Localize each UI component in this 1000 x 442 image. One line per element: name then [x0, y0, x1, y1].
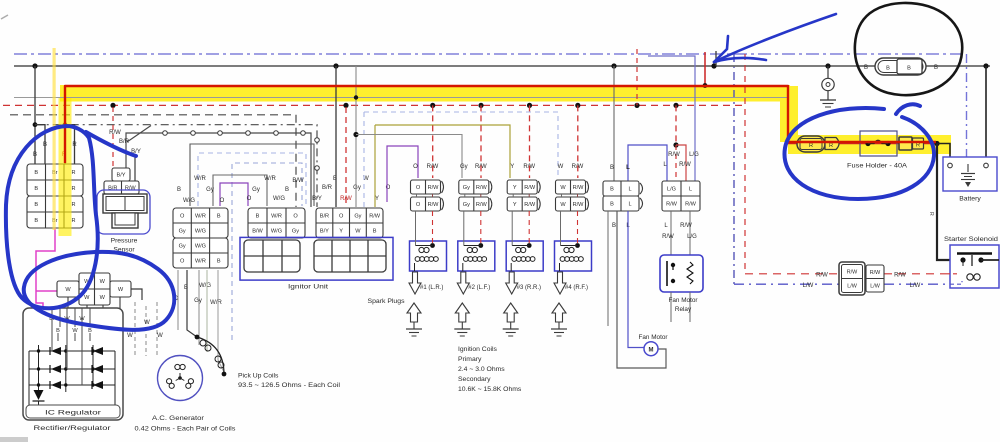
connector: ignitor unit 8-pin [316, 208, 383, 238]
svg-text:W/G: W/G [273, 196, 285, 202]
label box: IC Regulator [26, 405, 120, 418]
svg-text:#2 (L.F.): #2 (L.F.) [468, 285, 490, 291]
wire: fan motor loop [608, 211, 666, 368]
svg-text:W: W [558, 164, 564, 170]
annotation: black circle around main fuse [855, 3, 962, 95]
svg-text:Gy: Gy [179, 229, 186, 235]
svg-text:#3 (R.R.): #3 (R.R.) [517, 285, 541, 291]
svg-text:B/Y: B/Y [312, 196, 322, 202]
wire: black stub at broken point [715, 51, 717, 66]
svg-text:B: B [285, 187, 289, 193]
relay: fan motor relay [660, 255, 703, 322]
svg-text:Battery: Battery [959, 196, 981, 203]
svg-text:R/W: R/W [894, 273, 906, 279]
svg-text:R/W: R/W [685, 202, 697, 208]
svg-text:O: O [416, 202, 421, 208]
wire: L lead bracket to fan connector [628, 56, 695, 181]
svg-text:W/R: W/R [195, 259, 206, 265]
svg-text:R/W: R/W [475, 164, 487, 170]
connector: ignition coil 1 plug [411, 164, 444, 211]
svg-text:Gy: Gy [463, 185, 470, 191]
svg-text:R/W: R/W [573, 185, 585, 191]
component: pressure sensor body [97, 190, 150, 234]
wire: R wires into regulator connector [62, 86, 78, 165]
svg-text:B/W: B/W [252, 229, 263, 235]
svg-text:W: W [100, 295, 106, 301]
svg-text:B/Y: B/Y [116, 173, 125, 179]
wire: main ignition bus (blue dash-dot) [14, 54, 967, 284]
label: ignitor right connector wire labels [312, 176, 391, 202]
wire: heavy lead to solenoid [928, 144, 961, 261]
motor: fan motor M [644, 342, 658, 356]
wire: coil 1 HT lead arrow [409, 272, 443, 294]
component: A.C. generator [158, 356, 203, 401]
wire: L/W run to solenoid (blue dashed) [734, 281, 962, 289]
svg-text:R/W: R/W [662, 234, 674, 240]
svg-text:R/W: R/W [476, 185, 488, 191]
label: pickup connector wire labels [177, 176, 225, 204]
wire: main ground bus (solid) [14, 65, 990, 67]
annotation: yellow marker verticals over connector [53, 48, 72, 236]
svg-text:Starter Solenoid: Starter Solenoid [944, 236, 998, 243]
wire: black dash-dot bus y125 with corner to B/R [35, 125, 320, 207]
svg-text:W: W [65, 287, 71, 293]
svg-text:R/W: R/W [476, 202, 488, 208]
svg-text:L: L [628, 187, 631, 193]
wire: W net (light blue dashed) ignitor to coil4 [364, 112, 558, 178]
wire: R/W dashed stub above bus at x637 [636, 49, 638, 105]
connector: fuse holder pill R 2 [825, 138, 839, 150]
svg-text:W/R: W/R [271, 214, 282, 220]
svg-text:B: B [373, 229, 377, 235]
svg-text:B: B [33, 152, 37, 158]
svg-text:W: W [355, 229, 361, 235]
svg-text:R/W: R/W [847, 270, 858, 276]
svg-text:R/W: R/W [428, 185, 440, 191]
connector: pressure sensor pins [104, 168, 139, 194]
connector: ignition coil 4 plug [556, 164, 589, 211]
svg-text:Fan Motor: Fan Motor [638, 334, 668, 341]
svg-text:W/G: W/G [271, 229, 282, 235]
svg-text:Gy: Gy [292, 229, 299, 235]
svg-text:Gy: Gy [354, 214, 361, 220]
spark plug 2 [454, 303, 470, 336]
svg-text:93.5 ~ 126.5 Ohms - Each Coil: 93.5 ~ 126.5 Ohms - Each Coil [238, 382, 341, 389]
svg-text:Gy: Gy [463, 202, 470, 208]
svg-text:B/R: B/R [119, 139, 130, 145]
wire: Y net (olive) ignitor to coil3 [375, 125, 510, 178]
svg-text:Ignition Coils: Ignition Coils [458, 346, 498, 353]
svg-text:0.42 Ohms - Each Pair of Coils: 0.42 Ohms - Each Pair of Coils [135, 426, 237, 433]
svg-text:B: B [34, 202, 38, 208]
node: junction dots on R/W red bus [110, 103, 678, 108]
svg-text:B: B [610, 165, 614, 171]
fuse: 40A fuse element [860, 131, 897, 156]
svg-text:A.C. Generator: A.C. Generator [152, 415, 205, 422]
svg-text:O: O [220, 198, 225, 204]
svg-text:R/W: R/W [666, 202, 678, 208]
svg-text:B: B [34, 218, 38, 224]
svg-text:R: R [71, 170, 75, 176]
svg-text:Gy: Gy [460, 164, 468, 170]
svg-text:W/G: W/G [183, 198, 195, 204]
svg-text:W: W [100, 279, 106, 285]
svg-text:O: O [180, 259, 185, 265]
wire: coil 2 HT lead arrow [457, 272, 490, 294]
connector: ignition coil 2 plug [459, 164, 492, 211]
diode: zener to ground [33, 390, 45, 406]
svg-text:L/G: L/G [687, 234, 697, 240]
svg-text:W: W [127, 333, 133, 339]
battery [943, 157, 997, 191]
component: diode bridge [29, 322, 115, 406]
wire: Gy net to coil2 [356, 135, 462, 179]
component: pick up coils arc [195, 335, 227, 377]
svg-text:W/R: W/R [195, 214, 206, 220]
svg-text:Y: Y [510, 164, 514, 170]
svg-text:R/W: R/W [668, 152, 680, 158]
wire: leads from pickup connector down [174, 270, 224, 372]
svg-text:R/W: R/W [680, 223, 692, 229]
svg-text:Secondary: Secondary [458, 376, 491, 383]
wire: O net (purple) ignitor to coil1 [387, 146, 418, 202]
svg-text:W/G: W/G [199, 283, 211, 289]
svg-text:W: W [560, 185, 566, 191]
svg-text:Y: Y [513, 185, 517, 191]
wire: coil 4 HT lead arrow [554, 272, 588, 294]
svg-text:2.4 ~ 3.0 Ohms: 2.4 ~ 3.0 Ohms [458, 366, 505, 373]
connector: fan relay 4-pin [662, 181, 700, 211]
wire: thin gray line under highlighter [14, 97, 788, 99]
connector: pickup coils 12-pin stack [173, 208, 228, 268]
svg-text:W: W [79, 316, 85, 322]
connector: fan motor 4-pin [603, 181, 643, 211]
svg-text:L: L [626, 165, 630, 171]
svg-text:Pressure: Pressure [111, 238, 138, 245]
svg-text:R/W: R/W [870, 270, 881, 276]
svg-text:W/R: W/R [194, 176, 206, 182]
node: junction dots on ground bus [32, 63, 988, 68]
spark plug 3 [503, 303, 519, 336]
svg-text:Y: Y [339, 229, 343, 235]
svg-text:B: B [217, 259, 221, 265]
annotation: big blue loop around regulator connector [6, 126, 136, 308]
svg-text:R: R [72, 142, 77, 148]
svg-text:R/W: R/W [369, 214, 381, 220]
svg-text:R/W: R/W [573, 202, 585, 208]
ignition coil 2 [458, 211, 495, 271]
svg-text:10.6K ~ 15.8K Ohms: 10.6K ~ 15.8K Ohms [458, 386, 522, 393]
svg-text:R/W: R/W [816, 273, 828, 279]
connector: ignitor unit 6-pin [248, 208, 305, 238]
svg-text:Spark Plugs: Spark Plugs [368, 298, 406, 305]
connector: ignition coil 3 plug [507, 164, 540, 211]
svg-text:M: M [649, 347, 654, 353]
wire: B wire into regulator connector [33, 66, 47, 164]
component: IC regulator / rectifier box [23, 308, 123, 420]
annotation: blue loop around W block [24, 252, 175, 330]
svg-text:B/R: B/R [320, 214, 329, 220]
wire: W leads from block into regulator [68, 297, 120, 309]
connector: rectifier/regulator 6-pin pair (B Br R) [27, 164, 83, 228]
wire: B/Y net with inline connectors (circles wire) [126, 126, 311, 208]
wire: red stub at broken point [704, 52, 706, 86]
svg-text:R: R [928, 212, 934, 216]
spark plug 4 [551, 303, 567, 336]
svg-text:W: W [84, 295, 90, 301]
wire: black dashed bus y115 with corner to B/W [10, 115, 296, 207]
svg-text:B: B [610, 202, 614, 208]
svg-text:W: W [560, 202, 566, 208]
annotation: red marker over R wire [65, 86, 936, 163]
annotation: blue arrow pointing at junction [714, 14, 836, 62]
ignition coil 3 [506, 211, 543, 271]
wire: R/W drops to coils (red dashed) [433, 105, 578, 178]
ignition coil 1 [410, 211, 447, 271]
label: ignition coils resistance [458, 346, 522, 393]
svg-text:R/W: R/W [428, 202, 440, 208]
svg-text:W: W [157, 333, 163, 339]
svg-text:R: R [71, 202, 75, 208]
connector: stator W block [57, 273, 142, 305]
svg-text:B/Y: B/Y [320, 229, 329, 235]
svg-text:R/W: R/W [524, 185, 536, 191]
svg-text:B: B [907, 66, 911, 72]
svg-text:Gy: Gy [206, 187, 214, 193]
wire: battery feeds [934, 66, 986, 162]
svg-text:R: R [809, 143, 813, 149]
wire: leads to pressure sensor [109, 107, 141, 181]
wire: B lead to fan connector [613, 66, 615, 181]
connector: main fuse B-B pill [864, 58, 938, 75]
svg-text:R/W: R/W [427, 164, 439, 170]
svg-text:L/G: L/G [689, 152, 699, 158]
label: Pressure Sensor [111, 238, 138, 254]
svg-text:O: O [180, 214, 185, 220]
wire: dashed W leads to generator [127, 302, 163, 356]
svg-text:L: L [689, 187, 692, 193]
svg-text:B/W: B/W [292, 178, 304, 184]
spark plug 1 [406, 303, 422, 336]
connector: fuse holder square [899, 137, 924, 150]
svg-text:Primary: Primary [458, 356, 482, 363]
svg-text:R: R [71, 186, 75, 192]
svg-text:O: O [416, 185, 421, 191]
wire: printed R wire through fuse holder [788, 143, 937, 145]
solenoid: starter solenoid [950, 245, 999, 288]
svg-text:L/W: L/W [910, 283, 921, 289]
connector: fuse holder pill R [797, 136, 825, 152]
svg-text:Gy: Gy [252, 187, 260, 193]
svg-text:Fan Motor: Fan Motor [668, 297, 698, 304]
svg-text:B: B [43, 142, 47, 148]
svg-text:R/W: R/W [109, 130, 121, 136]
label: fan connector labels [610, 165, 630, 229]
label: ignitor left connector wire labels [247, 176, 304, 202]
svg-text:R: R [71, 218, 75, 224]
svg-text:W/R: W/R [264, 176, 276, 182]
decorative smudges [0, 15, 28, 442]
label: Fan Motor Relay [668, 297, 698, 313]
wire: coil 3 HT lead arrow [506, 272, 541, 294]
svg-text:B: B [34, 170, 38, 176]
svg-text:W/G: W/G [195, 244, 206, 250]
svg-text:W: W [144, 320, 150, 326]
svg-text:O: O [247, 196, 252, 202]
wire: R/W main (red dashed) [3, 104, 746, 106]
wire: leads into ignitor right connector [336, 66, 375, 207]
wire: magenta Br wire to W-block [36, 228, 57, 308]
svg-text:Gy: Gy [353, 185, 361, 191]
svg-text:W: W [118, 287, 124, 293]
svg-text:O: O [413, 164, 418, 170]
svg-text:W/G: W/G [195, 229, 206, 235]
svg-text:B: B [934, 65, 938, 71]
svg-text:Pick Up Coils: Pick Up Coils [238, 373, 279, 380]
svg-text:Relay: Relay [675, 306, 692, 313]
wire: R/W run to solenoid (red dashed) [745, 54, 957, 279]
svg-text:B: B [256, 214, 260, 220]
svg-text:#4 (R.F.): #4 (R.F.) [565, 285, 588, 291]
svg-text:L/W: L/W [803, 283, 814, 289]
svg-text:Fuse Holder - 40A: Fuse Holder - 40A [847, 163, 908, 170]
annotation: blue loop around fuse holder [784, 104, 934, 199]
svg-text:Y: Y [513, 202, 517, 208]
svg-text:B/R: B/R [322, 185, 333, 191]
svg-text:R: R [829, 143, 833, 149]
wire: relay connector to relay box [662, 211, 697, 255]
ground: frame ground at x828 [820, 66, 836, 107]
svg-text:O: O [293, 214, 298, 220]
svg-text:B: B [177, 187, 181, 193]
svg-text:B: B [612, 223, 616, 229]
wire: bracket harness between pickup and ignitor connectors [190, 144, 314, 340]
svg-text:L/G: L/G [667, 187, 676, 193]
svg-text:Rectifier/Regulator: Rectifier/Regulator [34, 425, 112, 432]
ignition coil 4 [555, 211, 592, 271]
svg-text:B: B [610, 187, 614, 193]
connector: solenoid 2x2 blocks [839, 262, 884, 295]
component: ignitor unit box [240, 237, 393, 280]
svg-text:#1 (L.R.): #1 (L.R.) [420, 285, 443, 291]
svg-text:R/W: R/W [524, 202, 536, 208]
svg-text:B: B [34, 186, 38, 192]
wire: R/W leads to fan relay [663, 105, 699, 181]
svg-text:R: R [916, 143, 920, 149]
annotation: yellow highlighter main run [60, 85, 951, 154]
svg-text:R/W: R/W [679, 162, 691, 168]
svg-text:Ignitor Unit: Ignitor Unit [288, 284, 328, 291]
svg-text:R/W: R/W [572, 164, 584, 170]
svg-text:L/W: L/W [847, 284, 857, 290]
svg-text:W/R: W/R [210, 300, 222, 306]
svg-text:R/W: R/W [523, 164, 535, 170]
svg-text:Gy: Gy [179, 244, 186, 250]
svg-text:Gy: Gy [194, 298, 202, 304]
svg-text:IC Regulator: IC Regulator [45, 410, 102, 417]
svg-text:L: L [628, 202, 631, 208]
svg-text:B: B [217, 214, 221, 220]
svg-text:B: B [864, 65, 868, 71]
svg-text:B: B [886, 66, 890, 72]
svg-text:O: O [339, 214, 344, 220]
svg-text:L/W: L/W [870, 283, 880, 289]
node: dot at red stub base [703, 83, 708, 88]
